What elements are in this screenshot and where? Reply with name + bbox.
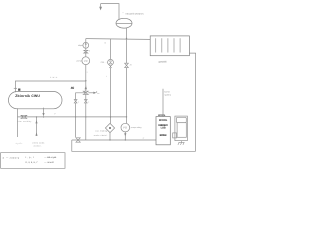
svg-text:pompa: pompa — [77, 60, 84, 63]
svg-text:t°: t° — [143, 137, 145, 140]
svg-text:t°: t° — [55, 112, 57, 115]
svg-text:t: t — [106, 75, 107, 78]
radiator — [150, 36, 189, 56]
svg-text:Zbiornik CWU: Zbiornik CWU — [15, 94, 40, 98]
pump C2 — [82, 57, 90, 65]
svg-text:wodoc.: wodoc. — [34, 144, 42, 147]
wire: vessel down to main line — [126, 28, 128, 39]
pump circle PO — [121, 123, 130, 132]
svg-text:zaw. zwrotny: zaw. zwrotny — [17, 120, 31, 123]
tank Zbiornik CWU — [9, 92, 63, 109]
node riser x tank line — [85, 80, 86, 81]
pump C1 — [83, 42, 89, 48]
svg-text:t: t — [87, 71, 88, 74]
svg-text:⌀: ⌀ — [3, 157, 5, 160]
legend row 1 — [3, 156, 57, 160]
svg-text:PC: PC — [84, 60, 88, 63]
wire: P1 horizontal — [18, 116, 127, 118]
pipe P2 to boiler — [72, 139, 156, 141]
drain stub with down arrow — [43, 108, 45, 113]
svg-text:Zr: Zr — [130, 63, 132, 66]
feeder body — [177, 123, 186, 138]
svg-text:ZM...: ZM... — [101, 61, 107, 64]
mixer diamond — [105, 123, 114, 132]
wire: V2 left branch — [76, 93, 86, 137]
radiator fins — [156, 38, 180, 52]
wire: top vent arrow line — [100, 4, 102, 9]
wire: main top supply line to radiator — [86, 38, 150, 41]
svg-text:spaliny: spaliny — [164, 94, 171, 97]
valve on left branch — [74, 100, 77, 103]
line B from vessel to pump — [126, 39, 128, 124]
svg-text:s: s — [89, 49, 90, 52]
three-way valve V2 — [83, 91, 88, 94]
chimney stub — [162, 89, 164, 117]
node at main line — [126, 38, 127, 39]
actuator stem — [85, 85, 87, 89]
svg-text:zm: zm — [97, 93, 100, 95]
svg-text:EKOGR.: EKOGR. — [160, 134, 167, 137]
svg-text:z: z — [78, 102, 79, 104]
svg-text:grzejniki: grzejniki — [159, 61, 167, 64]
svg-text:woda z instal.: woda z instal. — [94, 134, 108, 137]
legend row 2 — [26, 161, 54, 164]
wire: radiator return right and down — [189, 53, 195, 151]
vessel chord — [116, 23, 132, 25]
svg-text:0, 4, 5, 6, 7: 0, 4, 5, 6, 7 — [26, 161, 39, 164]
svg-text:*: * — [123, 12, 124, 15]
cold water stub — [36, 117, 38, 136]
fuel feeder outer — [175, 116, 188, 141]
svg-text:t, p, t: t, p, t — [26, 156, 35, 159]
feeder hopper top — [176, 117, 186, 122]
pipe P1 — [17, 108, 19, 137]
dark block — [18, 89, 20, 91]
motor valve ZM circle — [108, 59, 114, 65]
svg-text:KOCIOŁ: KOCIOŁ — [158, 114, 166, 117]
svg-text:odpow.: odpow. — [78, 44, 84, 47]
wire: floor return line — [72, 140, 196, 151]
line A from top to mixer — [110, 39, 112, 124]
feeder base hatch — [178, 141, 185, 145]
svg-text:cyrk.: cyrk. — [16, 142, 23, 145]
svg-text:zawory: zawory — [10, 157, 20, 160]
valve V1 — [84, 50, 88, 53]
label naczynie przeponowe — [123, 12, 145, 15]
svg-text:40: 40 — [71, 86, 75, 90]
node V2 — [85, 92, 86, 93]
valve on P1 — [21, 115, 28, 118]
legend box — [1, 153, 65, 169]
svg-text:PO: PO — [123, 127, 127, 130]
svg-text:— miedź: — miedź — [44, 161, 54, 164]
valve on line B — [125, 63, 129, 67]
svg-text:ts: ts — [104, 41, 106, 44]
wire: top horizontal to expansion vessel — [101, 4, 119, 20]
arrow head down — [99, 7, 102, 11]
svg-text:zaw. trójdrog.: zaw. trójdrog. — [95, 130, 108, 133]
label zimna woda — [32, 142, 45, 148]
wire: pump bottom stub — [124, 132, 126, 140]
riser pipe — [85, 39, 87, 92]
svg-text:naczynie przepon.: naczynie przepon. — [126, 13, 145, 16]
wire: riser lower branch — [85, 94, 87, 140]
feeder motor box — [173, 133, 177, 138]
node B x P1 — [126, 116, 127, 117]
label komin — [164, 91, 171, 97]
valve on riser branch — [84, 100, 87, 103]
svg-text:LUB: LUB — [161, 127, 166, 130]
wire: diamond bottom stub — [109, 133, 111, 140]
node P1 x riser branch — [85, 116, 86, 117]
svg-text:KOCIOŁ: KOCIOŁ — [159, 119, 168, 122]
valve on P2 — [76, 138, 80, 142]
expansion vessel ellipse — [116, 18, 132, 28]
boiler — [156, 117, 170, 145]
node P1 x left branch — [75, 116, 76, 117]
valve under circle — [109, 65, 111, 68]
svg-text:— stal ocynk.: — stal ocynk. — [44, 156, 57, 159]
wire: tank top line — [15, 81, 85, 92]
svg-text:zimna woda: zimna woda — [32, 142, 45, 145]
arrow up on riser — [85, 86, 87, 90]
svg-text:pompa obieg.: pompa obieg. — [131, 126, 142, 129]
wire: V2 right stub with arrow — [88, 92, 93, 94]
svg-text:komin: komin — [164, 91, 170, 94]
svg-text:—: — — [6, 157, 9, 159]
node A x P1 — [110, 116, 111, 117]
svg-text:c.w.u.: c.w.u. — [50, 76, 58, 79]
svg-text:z: z — [88, 102, 89, 104]
safety valve T on tank — [14, 87, 17, 89]
